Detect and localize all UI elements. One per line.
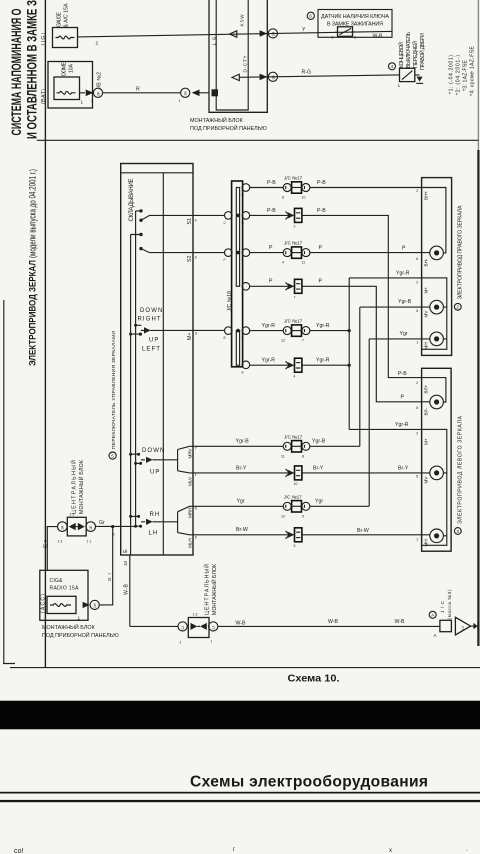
connector rowD xyxy=(286,528,302,542)
svg-text:ПРАВОЙ ДВЕРИ: ПРАВОЙ ДВЕРИ xyxy=(418,33,426,70)
horizontal motor (left) xyxy=(430,529,444,543)
svg-text:9: 9 xyxy=(113,533,115,537)
svg-text:10: 10 xyxy=(302,196,306,200)
svg-text:1 3: 1 3 xyxy=(58,540,63,544)
svg-text:J: J xyxy=(211,640,213,644)
svg-text:МОНТАЖНЫЙ БЛОК: МОНТАЖНЫЙ БЛОК xyxy=(77,460,85,514)
door switch КОНЦЕВОЙ ВЫКЛЮЧАТЕЛЬ xyxy=(400,68,415,81)
svg-text:ПЕРЕДНЕЙ: ПЕРЕДНЕЙ xyxy=(411,41,419,68)
heading double rule xyxy=(0,792,480,794)
svg-text:Ygr: Ygr xyxy=(400,331,408,337)
junction block entry arrow (R row) xyxy=(192,90,200,97)
svg-text:J: J xyxy=(180,641,182,645)
vertical motor (right) xyxy=(430,300,444,314)
row C Ygr wire xyxy=(190,339,430,506)
svg-text:х: х xyxy=(389,848,392,854)
svg-text:J/C №17: J/C №17 xyxy=(284,241,303,246)
vertical motor (left) xyxy=(430,466,444,480)
svg-text:Ygr-R: Ygr-R xyxy=(262,323,276,329)
svg-text:2: 2 xyxy=(416,381,418,385)
svg-text:MH: MH xyxy=(424,342,429,349)
J/C No17 row1 xyxy=(283,182,310,193)
svg-text:W-B: W-B xyxy=(123,583,129,595)
svg-text:5: 5 xyxy=(294,544,296,548)
svg-text:J/C №17: J/C №17 xyxy=(284,434,303,439)
connector circle 1H (ACC) xyxy=(90,600,99,609)
svg-text:MRV: MRV xyxy=(187,447,192,458)
circled ref for door switch xyxy=(389,63,396,70)
svg-text:DOME: DOME xyxy=(62,61,68,76)
svg-text:Gr: Gr xyxy=(99,520,105,526)
svg-text:7: 7 xyxy=(294,296,296,300)
svg-text:1G: 1G xyxy=(184,91,188,96)
row A Ygr-B wire xyxy=(190,307,430,446)
svg-text:ЭЛЕКТРОПРИВОД ЛЕВОГО ЗЕРКАЛА: ЭЛЕКТРОПРИВОД ЛЕВОГО ЗЕРКАЛА xyxy=(458,415,464,524)
svg-text:6: 6 xyxy=(416,257,418,261)
internal common buses xyxy=(131,211,136,555)
svg-text:M+: M+ xyxy=(187,333,193,340)
svg-text:8: 8 xyxy=(195,507,197,511)
svg-text:J/C №17: J/C №17 xyxy=(284,319,303,324)
J/C No17 row5 xyxy=(283,325,310,336)
svg-text:4: 4 xyxy=(391,64,394,69)
svg-text:P: P xyxy=(401,394,405,400)
svg-text:(BAT): (BAT) xyxy=(41,89,47,104)
connector rowB xyxy=(286,466,302,480)
svg-text:ПОД ПРИБОРНОЙ ПАНЕЛЬЮ: ПОД ПРИБОРНОЙ ПАНЕЛЬЮ xyxy=(42,631,119,639)
selector bracket horizontal-adjust xyxy=(178,506,190,535)
svg-text:Ygr-R: Ygr-R xyxy=(396,270,410,276)
junction block exit arrow (D-CTY row) xyxy=(260,74,268,81)
svg-text:12: 12 xyxy=(281,339,285,343)
svg-text:2: 2 xyxy=(332,35,334,39)
svg-text:со!: со! xyxy=(14,848,23,854)
left mirror adjust circuit xyxy=(422,429,447,545)
svg-text:5: 5 xyxy=(416,309,418,313)
svg-text:4: 4 xyxy=(294,374,296,378)
svg-text:10: 10 xyxy=(123,560,128,566)
fold motor (right) xyxy=(430,246,444,260)
svg-text:Br-W: Br-W xyxy=(357,528,369,534)
svg-text:1J: 1J xyxy=(461,626,465,630)
svg-text:ЦЕНТРАЛЬНЫЙ: ЦЕНТРАЛЬНЫЙ xyxy=(70,460,78,514)
connector arrow KSW xyxy=(230,31,237,37)
wire Gr from ACC to switch xyxy=(47,526,135,605)
svg-text:КОНЦЕВОЙ: КОНЦЕВОЙ xyxy=(397,42,405,68)
terminal square on block xyxy=(212,89,219,96)
svg-text:W-B: W-B xyxy=(373,33,384,39)
svg-text:В ЗАМКЕ ЗАЖИГАНИЯ: В ЗАМКЕ ЗАЖИГАНИЯ xyxy=(327,21,383,27)
svg-text:Ygr-R: Ygr-R xyxy=(395,422,409,428)
svg-text:4: 4 xyxy=(282,261,284,265)
svg-text:*3: 1AZ-FSE: *3: 1AZ-FSE xyxy=(463,59,469,91)
row D Br-W wire xyxy=(190,534,430,536)
junction block exit arrow (IG row) xyxy=(260,30,268,37)
svg-text:МОНТАЖНЫЙ БЛОК: МОНТАЖНЫЙ БЛОК xyxy=(42,623,96,631)
central mounting block connector (mid-left) xyxy=(58,522,68,532)
svg-text:Схемы электрооборудования: Схемы электрооборудования xyxy=(190,774,428,791)
folding contacts xyxy=(139,209,142,212)
svg-text:ВЛ+: ВЛ+ xyxy=(424,384,429,393)
svg-text:J/C №17: J/C №17 xyxy=(284,176,303,181)
svg-text:F: F xyxy=(224,258,226,262)
svg-text:P: P xyxy=(269,279,273,285)
svg-text:M+: M+ xyxy=(424,438,429,445)
J/B No2 box xyxy=(48,62,93,109)
svg-text:P-B: P-B xyxy=(267,180,276,186)
svg-text:P: P xyxy=(319,279,323,285)
svg-text:J/C №18: J/C №18 xyxy=(227,291,233,312)
svg-text:D-CTY: D-CTY xyxy=(243,56,248,73)
svg-text:*2: (04.2001-): *2: (04.2001-) xyxy=(456,55,462,95)
svg-text:ДАТЧИК НАЛИЧИЯ КЛЮЧА: ДАТЧИК НАЛИЧИЯ КЛЮЧА xyxy=(321,14,389,20)
left mirror fold circuit xyxy=(425,378,446,402)
svg-text:ЭЛЕКТРОПРИВОД ЗЕРКАЛ: ЭЛЕКТРОПРИВОД ЗЕРКАЛ xyxy=(28,260,39,366)
DOWN/UP contact xyxy=(137,453,140,456)
wire: page bottom frame xyxy=(3,300,480,668)
junction connector J/C No18 strip xyxy=(232,181,243,367)
connector circle 1H xyxy=(268,29,277,38)
svg-text:F: F xyxy=(242,258,244,262)
connector row2 xyxy=(286,208,302,222)
svg-text:CIG&: CIG& xyxy=(50,578,64,584)
svg-text:Ygr: Ygr xyxy=(237,499,245,505)
svg-text:1: 1 xyxy=(354,35,356,39)
mounting block outer box xyxy=(209,0,267,112)
svg-text:S1: S1 xyxy=(187,218,193,224)
svg-text:8: 8 xyxy=(282,196,284,200)
svg-text:MV: MV xyxy=(424,476,429,484)
svg-text:Ygr-R: Ygr-R xyxy=(316,323,330,329)
J/C No17 row3 xyxy=(283,247,310,258)
svg-text:& A/C 15A: & A/C 15A xyxy=(64,3,70,28)
svg-text:2: 2 xyxy=(91,99,93,103)
svg-text:F: F xyxy=(242,292,244,296)
svg-text:R: R xyxy=(136,87,140,93)
mounting block inner box xyxy=(216,0,248,110)
svg-text:P-B: P-B xyxy=(317,208,326,214)
svg-text:W-B: W-B xyxy=(395,619,406,625)
svg-text:DOWN: DOWN xyxy=(140,308,163,314)
svg-text:ВЫКЛЮЧАТЕЛЬ: ВЫКЛЮЧАТЕЛЬ xyxy=(406,31,412,68)
svg-text:ВН+: ВН+ xyxy=(424,191,429,200)
svg-text:5: 5 xyxy=(302,514,304,518)
connector arrow D-CTY xyxy=(232,74,239,80)
svg-text:DOWN: DOWN xyxy=(142,448,165,454)
svg-text:2: 2 xyxy=(96,41,99,46)
svg-text:P-B: P-B xyxy=(267,208,276,214)
svg-text:RH: RH xyxy=(150,512,161,518)
svg-text:1: 1 xyxy=(195,473,197,477)
svg-text:GAUGE: GAUGE xyxy=(57,11,63,27)
svg-text:ПЕРЕКЛЮЧАТЕЛЬ УПРАВЛЕНИЯ ЗЕРКА: ПЕРЕКЛЮЧАТЕЛЬ УПРАВЛЕНИЯ ЗЕРКАЛАМИ xyxy=(111,331,117,449)
svg-text:*4: кроме 1AZ-FSE: *4: кроме 1AZ-FSE xyxy=(470,45,476,96)
svg-text:Br-W: Br-W xyxy=(236,527,248,533)
svg-text:1 1: 1 1 xyxy=(87,540,92,544)
circled ref for key sensor xyxy=(307,12,314,19)
svg-text:1: 1 xyxy=(416,341,418,345)
connector arrow at J/B exit xyxy=(86,90,94,97)
svg-text:10A: 10A xyxy=(69,63,75,73)
svg-text:7: 7 xyxy=(195,447,197,451)
row 3 P wire xyxy=(250,252,430,254)
svg-text:ПОД ПРИБОРНОЙ ПАНЕЛЬЮ: ПОД ПРИБОРНОЙ ПАНЕЛЬЮ xyxy=(190,124,267,132)
svg-text:Ygr-B: Ygr-B xyxy=(398,299,412,305)
circled ref for switch xyxy=(109,452,116,459)
svg-text:RIGHT: RIGHT xyxy=(138,317,162,323)
svg-text:8: 8 xyxy=(302,454,304,458)
svg-text:2: 2 xyxy=(416,281,418,285)
svg-text:(модели выпуска до 04.2001 г.): (модели выпуска до 04.2001 г.) xyxy=(28,169,38,258)
fuse DOME 10A xyxy=(54,77,80,100)
connector circle 1G xyxy=(181,88,190,97)
svg-text:1D: 1D xyxy=(271,75,275,80)
fuse GAUGE & A/C 15A xyxy=(53,28,78,48)
svg-text:1 3: 1 3 xyxy=(193,613,198,617)
selector bracket vertical-adjust xyxy=(178,446,190,473)
svg-text:Br-Y: Br-Y xyxy=(398,465,409,471)
mirror control switch box xyxy=(121,164,193,556)
svg-text:1: 1 xyxy=(179,99,181,103)
svg-text:1: 1 xyxy=(81,100,84,105)
svg-text:UP: UP xyxy=(149,338,160,344)
svg-text:1A: 1A xyxy=(61,525,65,530)
fuse CIG & RADIO 15A xyxy=(47,596,76,613)
svg-text:UP: UP xyxy=(150,470,161,476)
wire R row xyxy=(80,92,210,94)
svg-text:6: 6 xyxy=(309,14,312,19)
svg-text:LH: LH xyxy=(149,531,159,537)
key sensor switch symbol xyxy=(338,27,353,37)
svg-text:Ygr-R: Ygr-R xyxy=(316,358,330,364)
svg-text:И ОСТАВЛЕННОМ В ЗАМКЕ З: И ОСТАВЛЕННОМ В ЗАМКЕ З xyxy=(25,0,40,139)
svg-text:1H: 1H xyxy=(93,603,97,608)
svg-text:ВН-: ВН- xyxy=(424,258,429,266)
svg-text:RADIO 15A: RADIO 15A xyxy=(50,585,80,591)
svg-text:1: 1 xyxy=(78,616,81,621)
row 5 Ygr-R wire xyxy=(250,278,422,430)
svg-text:6: 6 xyxy=(416,406,418,410)
svg-text:10: 10 xyxy=(281,514,285,518)
svg-text:Ygr-R: Ygr-R xyxy=(262,358,276,364)
svg-text:KSW: KSW xyxy=(240,14,245,27)
svg-text:MRH: MRH xyxy=(187,508,192,518)
fuse box CIG & RADIO (under-dash block) xyxy=(40,570,88,620)
svg-text:Br-Y: Br-Y xyxy=(236,465,247,471)
svg-text:11: 11 xyxy=(281,454,285,458)
svg-text:1J: 1J xyxy=(181,626,185,630)
row 6 Ygr-R wire xyxy=(250,364,350,366)
svg-text:P: P xyxy=(402,246,406,252)
svg-text:2: 2 xyxy=(294,225,296,229)
svg-text:(масса №3): (масса №3) xyxy=(447,589,452,619)
svg-text:W-B: W-B xyxy=(328,619,339,625)
left mirror drive box xyxy=(422,368,452,551)
svg-text:MH: MH xyxy=(424,539,429,546)
key sensor box ДАТЧИК НАЛИЧИЯ КЛЮЧА xyxy=(318,10,392,38)
RH/LH contact xyxy=(137,515,140,518)
wire: page left section border xyxy=(44,0,46,667)
svg-text:6: 6 xyxy=(195,332,197,336)
svg-text:(ACC): (ACC) xyxy=(40,594,46,613)
svg-text:MV: MV xyxy=(424,310,429,318)
wire: page right border xyxy=(477,0,479,150)
svg-text:Схема 10.: Схема 10. xyxy=(288,674,340,685)
row 4 P wire xyxy=(250,286,430,402)
wire: section separator xyxy=(37,139,479,141)
svg-text:1: 1 xyxy=(416,538,418,542)
svg-text:МОНТАЖНЫЙ БЛОК: МОНТАЖНЫЙ БЛОК xyxy=(190,116,244,124)
svg-text:СКЛАДЫВАНИЕ: СКЛАДЫВАНИЕ xyxy=(129,179,135,222)
central mounting block connector (bottom) xyxy=(178,622,187,631)
chassis ground symbol xyxy=(471,625,474,627)
strip junction dots xyxy=(236,214,240,218)
black separator bar xyxy=(0,701,480,730)
svg-text:MLV: MLV xyxy=(187,476,192,486)
svg-text:ВЛ-: ВЛ- xyxy=(424,407,429,415)
connector row4 xyxy=(286,279,302,293)
svg-text:4: 4 xyxy=(195,219,197,223)
svg-text:ЭЛЕКТРОПРИВОД ПРАВОГО ЗЕРКАЛА: ЭЛЕКТРОПРИВОД ПРАВОГО ЗЕРКАЛА xyxy=(458,205,464,300)
svg-text:Ygr-B: Ygr-B xyxy=(236,439,250,445)
svg-text:2: 2 xyxy=(416,189,418,193)
svg-text:P: P xyxy=(319,245,323,251)
svg-text:МОНТАЖНЫЙ БЛОК: МОНТАЖНЫЙ БЛОК xyxy=(210,564,218,615)
svg-text:E: E xyxy=(123,549,129,553)
wire W-B down from switch xyxy=(129,555,131,626)
svg-text:СИСТЕМА НАПОМИНАНИЯ О: СИСТЕМА НАПОМИНАНИЯ О xyxy=(9,9,24,136)
row 2 P-B wire xyxy=(250,215,425,377)
wire W-B ground run xyxy=(130,625,440,627)
wire IG from fuse to key sensor xyxy=(78,31,393,37)
svg-text:11: 11 xyxy=(302,261,306,265)
strip right connector circles xyxy=(242,184,250,192)
ground at door switch xyxy=(415,74,420,76)
row 1 P-B wire xyxy=(250,187,425,189)
svg-text:2K: 2K xyxy=(96,91,100,96)
svg-text:1 3: 1 3 xyxy=(70,513,75,517)
svg-text:W-B: W-B xyxy=(236,621,247,627)
svg-text:1: 1 xyxy=(398,83,401,88)
svg-text:5: 5 xyxy=(195,536,197,540)
connector circle 1D xyxy=(268,72,277,81)
connector circle 2K xyxy=(93,88,102,97)
svg-text:3: 3 xyxy=(456,529,459,534)
fold motor (left) xyxy=(430,395,444,409)
svg-text:2: 2 xyxy=(456,305,459,310)
svg-text:10: 10 xyxy=(294,482,298,486)
svg-text:P: P xyxy=(269,245,273,251)
svg-text:P-B: P-B xyxy=(398,371,407,377)
svg-text:Br-Y: Br-Y xyxy=(313,465,324,471)
svg-text:J/B №2: J/B №2 xyxy=(97,72,103,90)
connector arrow at CIG fuse xyxy=(83,602,90,608)
svg-text:R-G: R-G xyxy=(302,69,312,75)
right mirror drive box xyxy=(422,178,452,356)
svg-text:1J: 1J xyxy=(212,626,216,630)
svg-text:MLH: MLH xyxy=(187,538,192,548)
J/C No17 rowA xyxy=(283,441,310,452)
svg-text:LEFT: LEFT xyxy=(142,346,161,352)
connector row6 xyxy=(286,358,302,372)
right mirror fold circuit xyxy=(425,188,446,253)
svg-text:Ygr-B: Ygr-B xyxy=(312,439,326,445)
svg-text:ЦЕНТРАЛЬНЫЙ: ЦЕНТРАЛЬНЫЙ xyxy=(203,564,211,615)
junction J/C (ground No3) xyxy=(440,620,452,631)
svg-text:1H: 1H xyxy=(271,32,275,37)
wire R-G row xyxy=(239,75,399,77)
svg-text:5: 5 xyxy=(416,475,418,479)
svg-text:2: 2 xyxy=(416,432,418,436)
svg-text:P-B: P-B xyxy=(317,180,326,186)
svg-text:Ygr: Ygr xyxy=(315,499,323,505)
J/C No17 rowC xyxy=(283,501,310,512)
row B Br-Y wire xyxy=(190,472,430,474)
M+ contact xyxy=(131,325,225,334)
right mirror adjust circuit xyxy=(422,278,447,349)
horizontal motor (right) xyxy=(430,332,444,346)
svg-text:M+: M+ xyxy=(424,287,429,294)
svg-text:*1: (-04.2001): *1: (-04.2001) xyxy=(449,55,455,94)
svg-text:7: 7 xyxy=(302,339,304,343)
strip left connector circles xyxy=(225,212,233,220)
svg-text:1E: 1E xyxy=(89,525,93,530)
svg-text:J/C №17: J/C №17 xyxy=(284,494,303,499)
svg-text:5: 5 xyxy=(111,453,114,458)
ground triangle xyxy=(455,617,470,635)
svg-text:S2: S2 xyxy=(187,256,193,262)
svg-text:3: 3 xyxy=(195,256,197,260)
